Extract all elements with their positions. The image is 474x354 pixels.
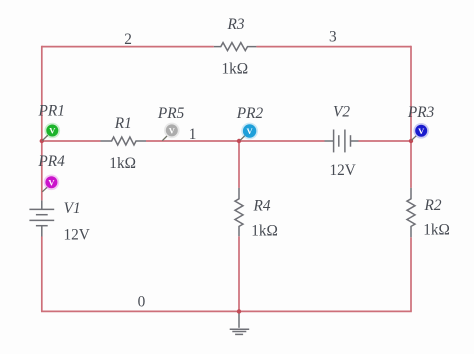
wire: right vertical net 3 (top corner down to R2) (410, 46, 412, 188)
svg-text:R1: R1 (114, 115, 132, 132)
svg-text:V2: V2 (333, 104, 350, 121)
svg-text:V1: V1 (64, 200, 81, 217)
wire: left vertical (V1 - down to bottom net 0) (41, 237, 43, 312)
wire: left vertical net 2 (top corner down to V1 +) (41, 46, 43, 201)
svg-text:R4: R4 (253, 198, 271, 215)
svg-text:PR2: PR2 (236, 105, 264, 122)
wire: middle segment V2 to PR3 node (359, 140, 412, 142)
svg-text:PR1: PR1 (38, 103, 65, 120)
svg-text:1: 1 (189, 126, 197, 143)
svg-text:V: V (48, 177, 55, 187)
svg-text:V: V (49, 126, 56, 136)
svg-text:1kΩ: 1kΩ (109, 155, 136, 172)
probe PR3 (412, 123, 430, 140)
battery V1 (29, 200, 54, 236)
node junction at PR1 (left wire / middle wire) (40, 139, 44, 143)
svg-text:1kΩ: 1kΩ (423, 221, 450, 238)
node junction at node 1 / PR2 (237, 139, 241, 143)
svg-text:V: V (418, 126, 425, 136)
resistor R2 (407, 188, 415, 237)
wire: top net 3 segment (right of R3) (256, 46, 411, 48)
svg-text:PR5: PR5 (157, 105, 185, 122)
svg-text:12V: 12V (330, 162, 356, 179)
svg-text:R2: R2 (424, 197, 442, 214)
wire: bottom net 0 (41, 310, 412, 312)
node junction at ground (bottom net 0) (237, 309, 241, 313)
svg-text:3: 3 (329, 29, 337, 46)
svg-text:R3: R3 (227, 16, 245, 33)
wire: middle net 1 segment R1 to V2 (146, 140, 325, 142)
svg-text:12V: 12V (64, 227, 90, 244)
node junction at PR3 (right wire / middle wire) (409, 139, 413, 143)
resistor R3 (214, 43, 257, 51)
svg-text:2: 2 (124, 31, 132, 48)
wire: top net 2 segment (node 2 left of R3) (42, 46, 214, 48)
svg-text:PR3: PR3 (407, 104, 435, 121)
wire: middle vertical R4 down to bottom net 0 (238, 236, 240, 311)
resistor R4 (235, 188, 243, 236)
svg-text:V: V (169, 125, 176, 135)
svg-text:V: V (247, 126, 254, 136)
svg-text:1kΩ: 1kΩ (251, 222, 278, 239)
wire: right vertical (R2 down to bottom net 0) (410, 237, 412, 311)
probe PR5 (162, 123, 179, 141)
probe PR4 (42, 175, 59, 192)
battery V2 (325, 130, 359, 153)
svg-text:PR4: PR4 (37, 153, 65, 170)
resistor R1 (101, 137, 147, 145)
probe PR1 (42, 123, 60, 141)
probe PR2 (240, 123, 258, 141)
svg-text:0: 0 (138, 294, 146, 311)
svg-text:1kΩ: 1kΩ (222, 60, 249, 77)
wire: middle net segment PR1 node to R1 (42, 140, 101, 142)
wire: middle vertical node 1 down to R4 (238, 141, 240, 188)
ground symbol (230, 311, 250, 334)
